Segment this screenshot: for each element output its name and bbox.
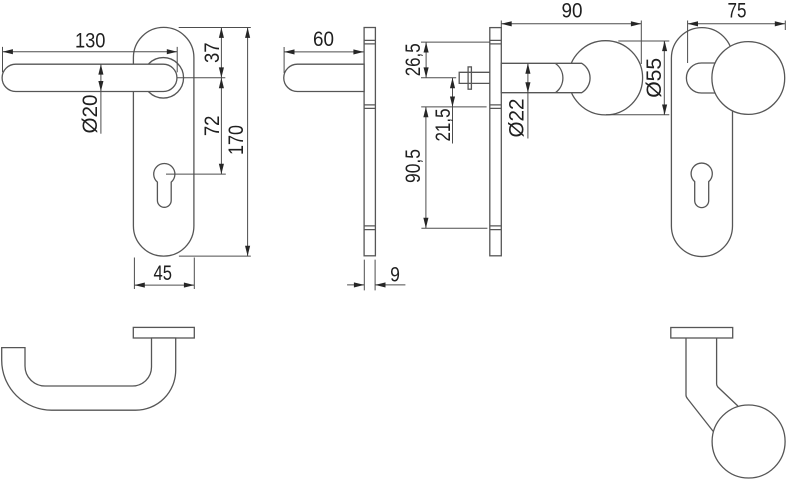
arrowhead 37 bottom — [219, 67, 224, 77]
arrowhead 45 right — [184, 283, 194, 288]
arrowhead 90 right — [631, 21, 641, 26]
plate joint lines (knob side) — [490, 40, 502, 229]
arrowhead 60 right — [353, 49, 363, 54]
svg-text:75: 75 — [728, 0, 747, 22]
arrowhead 72 top — [219, 78, 224, 88]
dim 9 extension lines — [364, 260, 375, 291]
dim 21,5 / 90,5 shared extension — [421, 106, 486, 108]
arrowhead Ø55 bottom — [662, 105, 667, 115]
dim 170 line — [247, 28, 249, 257]
arrowhead 60 left — [284, 49, 294, 54]
dim 90,5 bottom extension — [421, 227, 487, 229]
svg-text:60: 60 — [313, 28, 334, 51]
knob neck (front) — [686, 63, 755, 93]
dim 75 extension lines — [688, 21, 786, 64]
dim 75 line — [688, 23, 786, 25]
arrowhead Ø22 top — [525, 63, 530, 73]
arrowhead 45 left — [134, 283, 144, 288]
dim 37/72/170 extension lines — [166, 28, 251, 257]
dim 60 line — [284, 51, 364, 53]
arrowhead 130 left — [3, 49, 13, 54]
arrowhead 170 top — [245, 28, 250, 38]
dim Ø55 extension lines — [606, 41, 669, 115]
dim Ø22 leader — [527, 63, 529, 138]
dim 130 line — [3, 51, 178, 53]
dim 60 extension line — [283, 47, 285, 73]
arrowhead 21,5 bottom — [450, 97, 455, 107]
svg-text:37: 37 — [201, 43, 224, 64]
arrowhead 72 bottom — [219, 164, 224, 174]
arrowhead 37 top — [219, 28, 224, 38]
arrowhead 130 right — [167, 49, 177, 54]
plate edge (top view, lever) — [133, 327, 194, 338]
arrowhead 21,5 top — [450, 78, 455, 88]
svg-text:21,5: 21,5 — [432, 109, 455, 142]
plate joint lines (side) — [364, 40, 375, 229]
arrowhead 90 left — [501, 21, 511, 26]
knob sphere (front) — [712, 42, 785, 115]
arrowhead Ø22 bottom — [525, 82, 530, 92]
lever handle (side) — [284, 64, 364, 91]
dim 90 extension lines — [501, 21, 641, 65]
dim 130 extension lines — [3, 47, 178, 72]
arrowhead 9 left — [354, 282, 364, 287]
arrowhead 75 right — [775, 21, 785, 26]
svg-text:170: 170 — [225, 125, 248, 155]
keyhole (view 1) — [154, 164, 175, 208]
dim 37 line — [220, 28, 222, 78]
arrowhead 90,5 top — [423, 107, 428, 117]
screw washer — [468, 67, 471, 89]
lever handle (top view J-shape) — [2, 338, 176, 410]
neck-sphere transition arc — [556, 64, 563, 93]
dim 45 line — [134, 284, 194, 286]
dim Ø20 leader — [100, 64, 102, 134]
plate (side) — [364, 28, 375, 256]
svg-text:Ø20: Ø20 — [79, 95, 102, 134]
svg-text:45: 45 — [154, 262, 173, 285]
plate (front, knob set) — [671, 28, 732, 257]
arrowhead 90,5 bottom — [423, 218, 428, 228]
keyhole (view 4) — [691, 163, 712, 208]
knob neck (top view, angled) — [686, 338, 738, 432]
plate (side, knob set) — [490, 28, 502, 256]
knob sphere (top view) — [712, 405, 785, 478]
arrowhead 26,5 top — [424, 42, 429, 52]
plate (front) — [133, 27, 194, 256]
arrowhead 75 left — [688, 21, 698, 26]
svg-text:9: 9 — [390, 263, 400, 286]
svg-text:90: 90 — [562, 0, 583, 23]
arrowhead Ø20 bottom — [98, 81, 103, 91]
svg-text:Ø22: Ø22 — [506, 99, 529, 138]
dim 90,5 line — [425, 107, 427, 228]
arrowhead Ø20 top — [98, 64, 103, 74]
dim 9 line — [347, 284, 405, 286]
knob neck (side) — [501, 63, 590, 92]
arrowhead Ø55 top — [662, 41, 667, 51]
svg-text:72: 72 — [201, 116, 224, 136]
dim 72 line — [220, 78, 222, 174]
arrowhead 9 right — [375, 282, 385, 287]
collar circle (lever bearing) — [143, 58, 184, 99]
dim 26,5 extension lines — [421, 42, 490, 78]
arrowhead 26,5 bottom — [424, 67, 429, 77]
knob sphere (side) — [568, 41, 642, 115]
lever handle (front) — [2, 64, 177, 91]
dim 21,5 line with leader — [452, 78, 454, 144]
dim 90 line — [501, 23, 641, 25]
plate edge (top view, knob) — [671, 328, 733, 339]
dim Ø55 line — [663, 41, 665, 115]
svg-text:90,5: 90,5 — [402, 149, 425, 183]
svg-text:130: 130 — [75, 30, 106, 53]
dim 26,5 line — [425, 42, 427, 78]
svg-text:26,5: 26,5 — [402, 43, 425, 76]
arrowhead 170 bottom — [245, 246, 250, 256]
fixing screw / spindle — [459, 72, 490, 83]
svg-text:Ø55: Ø55 — [643, 58, 666, 98]
dim 45 extension lines — [134, 258, 194, 290]
